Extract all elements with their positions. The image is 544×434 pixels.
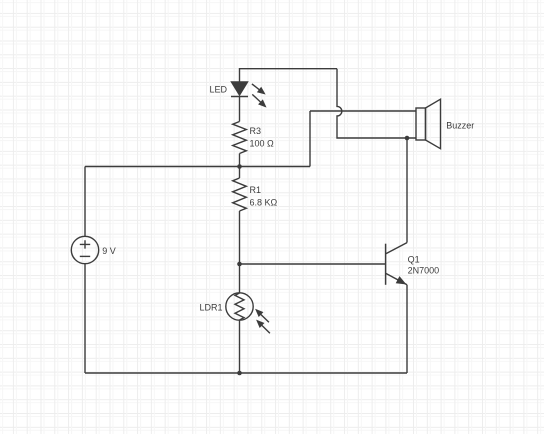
svg-text:2N7000: 2N7000 [408, 266, 440, 276]
junction node: buzzer bottom / collector [405, 136, 410, 141]
wire: mid-rail junction to R1 top [239, 167, 241, 179]
svg-text:LED: LED [210, 85, 228, 95]
svg-text:9 V: 9 V [102, 246, 116, 256]
wire: R1 bottom to base node and on to LDR top [239, 211, 241, 293]
wire: LED anode up and across the top to x=337 [240, 69, 338, 82]
battery minus sign [80, 255, 90, 257]
wire: vertical from buzzer-top wire down to mid rail [309, 111, 311, 167]
svg-text:R3: R3 [250, 126, 262, 136]
svg-text:LDR1: LDR1 [200, 303, 223, 313]
wire: buzzer top lead from x=310 [310, 110, 416, 112]
battery V1 9V source circle [71, 236, 98, 263]
wire: Q1 collector vertical up to buzzer bottom lead [406, 138, 408, 243]
svg-text:Q1: Q1 [408, 254, 420, 264]
junction node: base node on divider [237, 262, 242, 267]
junction node: mid rail / R3 / R1 [237, 164, 242, 169]
resistor R3 zigzag [233, 122, 247, 154]
transistor Q1 symbol [386, 243, 407, 285]
buzzer LS1 speaker symbol [416, 99, 441, 149]
svg-text:6.8 KΩ: 6.8 KΩ [250, 197, 278, 207]
wire: left rail down to battery top [84, 167, 86, 237]
svg-text:Buzzer: Buzzer [446, 121, 474, 131]
wire: LDR bottom to bottom rail [239, 320, 241, 373]
LDR1 symbol: circle with zigzag and incoming arrows [226, 293, 270, 333]
svg-text:R1: R1 [250, 185, 262, 195]
wire: R3 bottom to mid-rail junction [239, 154, 241, 167]
wire: LED cathode to R3 top [239, 97, 241, 122]
wire: mid horizontal rail from left rail to x=310 [85, 166, 310, 168]
junction node: bottom rail / LDR [237, 371, 242, 376]
wire: battery bottom to bottom rail [84, 264, 86, 373]
wire: bottom rail [85, 372, 407, 374]
wire: base wire from node to Q1 [240, 263, 386, 265]
LED D1 symbol: triangle, cathode bar, emission arrows [231, 82, 265, 106]
svg-text:100 Ω: 100 Ω [250, 138, 275, 148]
battery plus sign [80, 240, 90, 248]
wire: Q1 emitter vertical down to bottom rail [406, 285, 408, 373]
resistor R1 zigzag [233, 178, 247, 211]
wire: right vertical with hop over buzzer-top wire, down to buzzer bottom lead [337, 69, 416, 138]
